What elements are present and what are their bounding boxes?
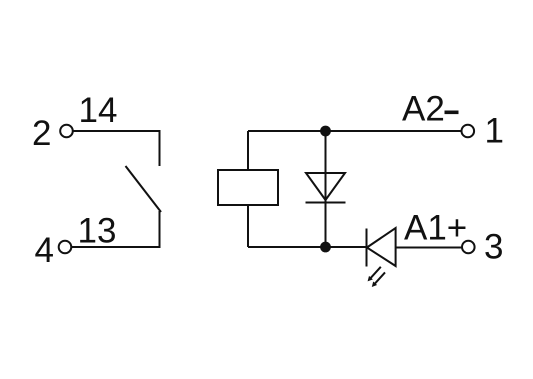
wire LED to terminal 3 [396,247,463,249]
terminal 3 [462,241,475,254]
wire terminal2 to switch [73,131,160,166]
switch blade 14-13 [126,166,162,212]
LED light arrow 1 [368,267,381,282]
LED light arrow 2 [372,272,385,287]
svg-text:13: 13 [78,212,117,251]
terminal 1 [462,125,475,138]
wire top rail to coil [247,131,249,170]
wire coil to bottom rail [247,205,249,247]
node junction bottom [321,243,330,252]
wire switch to terminal4 [71,211,159,247]
node junction top [321,127,330,136]
svg-text:1: 1 [485,112,504,151]
svg-text:4: 4 [35,231,54,270]
svg-text:2: 2 [32,114,51,153]
svg-text:A2: A2 [402,90,445,129]
wire A2 top rail [248,130,462,132]
svg-text:3: 3 [484,228,503,267]
LED cathode bar [366,229,368,267]
terminal 2 [60,125,73,138]
svg-text:A1+: A1+ [404,209,467,248]
freewheeling diode V1 [306,173,345,200]
svg-text:14: 14 [79,91,118,130]
wire diode branch [325,131,327,247]
relay coil K1 [218,170,278,205]
wire bottom rail [248,246,367,248]
LED triangle [367,228,396,266]
terminal 4 [59,241,72,254]
